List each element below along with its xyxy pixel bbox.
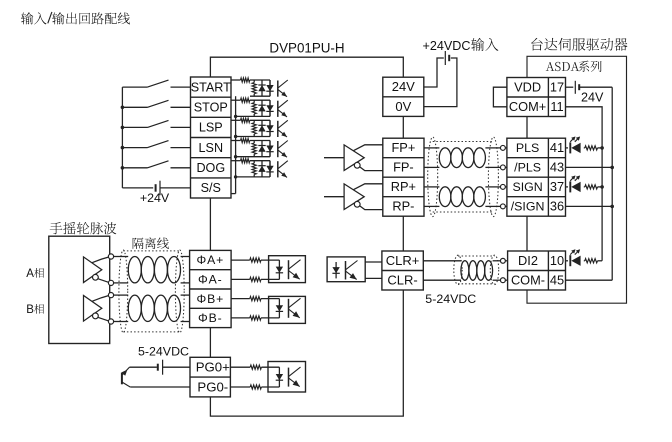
label +24V xyxy=(140,191,170,205)
resistor PG0+ xyxy=(250,365,261,369)
svg-text:START: START xyxy=(191,80,231,94)
svg-text:11: 11 xyxy=(550,99,563,114)
optocoupler phototransistor DOG xyxy=(278,161,288,178)
optocoupler U-PG box xyxy=(268,362,306,393)
junction LED bus pin37 xyxy=(600,185,604,189)
wire RP+ to SIGN xyxy=(424,186,501,188)
transistor Q1 pulse source xyxy=(122,367,131,387)
wire 24V bus right xyxy=(611,87,613,280)
wire opto to CLR+ xyxy=(365,261,382,263)
wire CLR+ to DI2 xyxy=(423,260,500,262)
wire collector to battery xyxy=(129,366,157,368)
terminal block CLR xyxy=(382,251,423,290)
svg-text:37: 37 xyxy=(550,179,564,194)
LED pair LSP xyxy=(258,120,273,136)
wire FP block to CLR block xyxy=(402,216,404,251)
label VDD xyxy=(514,80,541,95)
svg-text:FP+: FP+ xyxy=(391,140,415,155)
svg-text:43: 43 xyxy=(550,160,564,175)
terminal block ΦA/ΦB xyxy=(190,250,232,327)
connector pin /SIGN xyxy=(500,204,506,209)
line driver A phase xyxy=(84,257,110,283)
label 5-24VDC left xyxy=(138,345,189,359)
wire RP- to /SIGN xyxy=(424,205,501,207)
connector handwheel B+ xyxy=(108,293,113,298)
optocoupler U-CLR LED xyxy=(332,262,339,278)
svg-text:17: 17 xyxy=(550,80,564,95)
junction LED bus pin41 xyxy=(600,146,604,150)
switch START input contact xyxy=(122,80,190,87)
label 隔离线 xyxy=(133,237,169,249)
label terminal ΦB- xyxy=(198,311,223,325)
connector handwheel A+ xyxy=(108,254,113,259)
junction bus pin36 xyxy=(610,205,614,209)
svg-text:STOP: STOP xyxy=(194,101,228,115)
label ASDA系列 xyxy=(546,61,602,72)
LED pin 41 xyxy=(566,137,581,154)
connector pin COM- xyxy=(500,278,507,283)
junction left bus row STOP xyxy=(121,106,125,110)
label COM+ xyxy=(509,99,546,114)
wire S/S block to ΦA block xyxy=(209,198,211,250)
junction ladder bus LSN xyxy=(234,155,237,158)
svg-text:5-24VDC: 5-24VDC xyxy=(138,345,189,359)
connector pin DI2 xyxy=(500,258,507,263)
wire SIGN block to DI2 block xyxy=(526,216,528,251)
optocoupler U-CLR box xyxy=(327,257,365,282)
switch STOP input contact xyxy=(122,100,190,107)
svg-text:PG0+: PG0+ xyxy=(196,360,230,375)
terminal block VDD/COM+ xyxy=(507,78,566,117)
svg-text:5-24VDC: 5-24VDC xyxy=(425,292,476,306)
resistor input LSN xyxy=(252,141,256,157)
battery 24V servo xyxy=(575,81,579,94)
svg-text:RP+: RP+ xyxy=(391,179,416,194)
label terminal ΦB+ xyxy=(196,292,224,306)
svg-text:PG0-: PG0- xyxy=(197,379,228,394)
wire opto to CLR- xyxy=(365,277,382,279)
wire PG0+ to opto xyxy=(230,366,250,368)
terminal block DI2/COM- xyxy=(508,251,566,290)
optocoupler U-B phototransistor xyxy=(289,298,301,318)
label +24VDC输入 xyxy=(423,38,499,53)
wire pin43 to bus xyxy=(566,166,613,168)
optocoupler U-PG phototransistor xyxy=(289,367,301,387)
svg-text:ΦA+: ΦA+ xyxy=(196,253,224,267)
optocoupler U-CLR phototransistor xyxy=(346,261,358,280)
wire A- to ΦA- xyxy=(114,282,190,284)
line driver FP (U-FP) xyxy=(324,145,383,171)
svg-text:+24V: +24V xyxy=(140,191,170,205)
resistor input DOG xyxy=(252,161,256,177)
svg-text:41: 41 xyxy=(550,140,564,155)
label A相 xyxy=(26,268,44,280)
wire resistor to opto B- xyxy=(261,317,279,319)
label DI2 xyxy=(518,253,538,268)
wire ΦA+ to opto xyxy=(231,259,250,261)
svg-text:VDD: VDD xyxy=(514,80,541,95)
resistor input STOP xyxy=(252,100,256,116)
junction bus pin43 xyxy=(610,166,614,170)
label terminal S/S xyxy=(201,181,221,195)
label CLR+ xyxy=(386,253,420,268)
connector pin SIGN xyxy=(500,184,506,189)
wire CLR block to bottom bus xyxy=(210,290,403,416)
label pin 41 xyxy=(550,140,564,155)
wire ΦA- to opto xyxy=(231,278,250,280)
optocoupler U-B box xyxy=(269,296,306,323)
wire resistor to opto A- xyxy=(261,278,279,280)
optocoupler U-A box xyxy=(269,256,306,283)
connector handwheel B- xyxy=(108,319,113,324)
connector pin PLS xyxy=(500,145,506,150)
label terminal /PLS xyxy=(514,161,541,175)
wire optocoupler common bus to S/S xyxy=(231,96,236,193)
label 手摇轮脉波 xyxy=(50,222,117,234)
wire pin36 to bus xyxy=(566,205,613,207)
svg-text:DVP01PU-H: DVP01PU-H xyxy=(269,41,344,56)
twisted pair FP xyxy=(439,148,485,168)
wire B+ to ΦB+ xyxy=(114,294,190,296)
wire input network LSP xyxy=(231,118,270,136)
resistor ΦA- xyxy=(250,277,261,281)
svg-text:SIGN: SIGN xyxy=(512,180,542,194)
label terminal PLS xyxy=(516,141,539,155)
svg-text:LSN: LSN xyxy=(199,141,224,155)
line driver RP (U-RP) xyxy=(324,184,383,210)
wire battery to PG0+ xyxy=(163,366,190,368)
label terminal ΦA+ xyxy=(196,253,224,267)
wire battery to 0V xyxy=(424,58,457,107)
resistor input LSP xyxy=(252,120,256,136)
svg-text:10: 10 xyxy=(550,253,564,268)
svg-text:/PLS: /PLS xyxy=(514,161,541,175)
label terminal FP- xyxy=(393,160,414,175)
wire pin17 to battery xyxy=(566,86,574,88)
optocoupler U-PG LED xyxy=(276,367,283,387)
label 台达伺服驱动器 xyxy=(531,38,627,51)
wire resistor to opto B+ xyxy=(261,298,279,300)
svg-text:24V: 24V xyxy=(581,91,604,105)
wire emitter to PG0- xyxy=(130,386,190,388)
svg-text:24V: 24V xyxy=(392,79,415,94)
wire FP+ to PLS xyxy=(424,147,501,149)
wire pin45 to bus xyxy=(566,279,613,281)
battery +24V input supply xyxy=(122,181,190,196)
label pin 10 xyxy=(550,253,564,268)
svg-text:CLR-: CLR- xyxy=(387,272,417,287)
LED pair LSN xyxy=(258,141,273,157)
label pin 43 xyxy=(550,160,564,175)
label B相 xyxy=(26,304,44,316)
label PG0- xyxy=(197,379,228,394)
terminal block PG0 xyxy=(190,357,230,397)
label pin 36 xyxy=(550,199,564,214)
resistor ΦB- xyxy=(250,316,261,320)
svg-text:0V: 0V xyxy=(395,99,411,114)
svg-text:RP-: RP- xyxy=(392,199,414,214)
twisted pair RP xyxy=(439,187,485,207)
line driver B phase xyxy=(84,295,110,321)
label terminal START xyxy=(191,80,231,94)
junction left bus row LSP xyxy=(121,126,125,130)
label pin 17 xyxy=(550,80,564,95)
label terminal ΦA- xyxy=(198,273,223,287)
svg-text:DI2: DI2 xyxy=(518,253,538,268)
switch LSN input contact xyxy=(122,141,190,148)
cable shield FP/RP pairs xyxy=(428,137,499,217)
label terminal RP+ xyxy=(391,179,416,194)
svg-text:A: A xyxy=(26,268,34,280)
wire 24V to battery xyxy=(424,58,444,87)
connector pin /PLS xyxy=(500,165,506,170)
optocoupler phototransistor LSP xyxy=(278,120,288,137)
connector handwheel A- xyxy=(108,280,113,285)
label COM- xyxy=(511,272,545,287)
handwheel pulse generator box xyxy=(49,236,110,343)
svg-text:/SIGN: /SIGN xyxy=(511,200,545,214)
wire B- to ΦB- xyxy=(114,321,190,323)
wire input network START xyxy=(231,78,270,96)
junction ladder bus DOG xyxy=(234,175,237,178)
wire battery to bus2 xyxy=(579,86,612,88)
svg-text:COM+: COM+ xyxy=(509,99,546,114)
svg-text:B: B xyxy=(26,304,34,316)
wire servo bracket xyxy=(527,56,627,303)
LED pair STOP xyxy=(258,100,273,116)
wire COM+ to LED bus xyxy=(566,107,603,261)
LED pin 37 xyxy=(566,176,581,193)
label 0V xyxy=(395,99,411,114)
LED pair DOG xyxy=(258,161,273,177)
wire 0V to FP block xyxy=(402,116,404,138)
label terminal LSP xyxy=(199,121,223,135)
switch DOG input contact xyxy=(122,161,190,168)
label terminal SIGN xyxy=(512,180,542,194)
label pin 37 xyxy=(550,179,564,194)
label 5-24VDC right xyxy=(425,292,476,306)
cable shield handwheel xyxy=(119,250,184,333)
LED pair START xyxy=(258,80,273,96)
label DVP01PU-H xyxy=(269,41,344,56)
wire VDD-COM+ jumper xyxy=(493,87,507,107)
label terminal /SIGN xyxy=(511,200,545,214)
junction left bus row DOG xyxy=(121,166,125,170)
svg-text:ΦA-: ΦA- xyxy=(198,273,223,287)
wire VDD block to PLS block xyxy=(526,117,528,139)
svg-text:FP-: FP- xyxy=(393,160,414,175)
optocoupler phototransistor START xyxy=(278,80,288,97)
svg-text:36: 36 xyxy=(550,199,564,214)
resistor PG0- xyxy=(250,385,261,389)
optocoupler phototransistor STOP xyxy=(278,100,288,117)
svg-text:ΦB+: ΦB+ xyxy=(196,292,224,306)
twisted pair A phase xyxy=(128,257,180,283)
label terminal FP+ xyxy=(391,140,415,155)
wire DVP01PU-H bracket xyxy=(210,57,403,77)
svg-text:+24VDC: +24VDC xyxy=(423,39,471,53)
wire FP- to /PLS xyxy=(424,166,501,168)
junction ladder bus LSP xyxy=(234,135,237,138)
svg-text:45: 45 xyxy=(550,272,564,287)
terminal block 24V/0V xyxy=(383,77,424,116)
optocoupler phototransistor LSN xyxy=(278,141,288,158)
wire input network LSN xyxy=(231,138,270,156)
label CLR- xyxy=(387,272,417,287)
svg-text:CLR+: CLR+ xyxy=(386,253,420,268)
svg-text:ΦB-: ΦB- xyxy=(198,311,223,325)
label 24V xyxy=(392,79,415,94)
wire resistor to opto A+ xyxy=(261,259,279,261)
wire ΦB- to opto xyxy=(231,317,250,319)
label 24V servo xyxy=(581,91,604,105)
svg-text:PLS: PLS xyxy=(516,141,539,155)
resistor input START xyxy=(252,80,256,96)
junction ladder bus STOP xyxy=(234,115,237,118)
title 输入/输出回路配线 xyxy=(21,12,130,25)
twisted pair B phase xyxy=(128,295,180,321)
svg-text:DOG: DOG xyxy=(196,161,225,175)
wire A+ to ΦA+ xyxy=(114,256,190,258)
label terminal STOP xyxy=(194,101,228,115)
svg-text:COM-: COM- xyxy=(511,272,545,287)
resistor pin 41 xyxy=(584,146,602,150)
LED pin 10 xyxy=(566,249,581,266)
terminal strip X inputs START/STOP/LSP/LSN/DOG/S/S xyxy=(191,77,232,198)
wire resistor to opto PG- xyxy=(261,386,279,388)
optocoupler U-B LED xyxy=(276,299,283,318)
svg-text:S/S: S/S xyxy=(201,181,221,195)
resistor ΦA+ xyxy=(250,258,261,262)
label terminal LSN xyxy=(199,141,224,155)
label terminal RP- xyxy=(392,199,414,214)
label terminal DOG xyxy=(196,161,225,175)
switch LSP input contact xyxy=(122,120,190,127)
label PG0+ xyxy=(196,360,230,375)
junction left bus row LSN xyxy=(121,146,125,150)
label pin 11 xyxy=(550,99,563,114)
optocoupler U-A LED xyxy=(276,260,283,279)
wire input network STOP xyxy=(231,98,270,116)
optocoupler U-A phototransistor xyxy=(289,260,301,280)
svg-text:LSP: LSP xyxy=(199,121,223,135)
wire resistor to opto PG+ xyxy=(261,366,279,368)
cable shield CLR pair xyxy=(454,255,499,284)
terminal block PLS/SIGN xyxy=(507,138,566,216)
resistor pin 37 xyxy=(584,185,602,189)
battery +24VDC input xyxy=(445,51,449,65)
resistor ΦB+ xyxy=(250,297,261,301)
wire PG0- to opto xyxy=(230,386,250,388)
wire input network DOG xyxy=(231,159,270,177)
twisted pair CLR xyxy=(461,261,493,281)
wire ΦB+ to opto xyxy=(231,298,250,300)
wire ΦB block to PG block xyxy=(209,328,211,358)
wire +24V bus left xyxy=(121,87,123,188)
wire CLR- to COM- xyxy=(423,279,500,281)
label pin 45 xyxy=(550,272,564,287)
battery 5-24VDC source xyxy=(158,360,163,375)
resistor pin 10 xyxy=(584,259,602,263)
terminal block FP/RP pulse outputs xyxy=(383,138,424,216)
